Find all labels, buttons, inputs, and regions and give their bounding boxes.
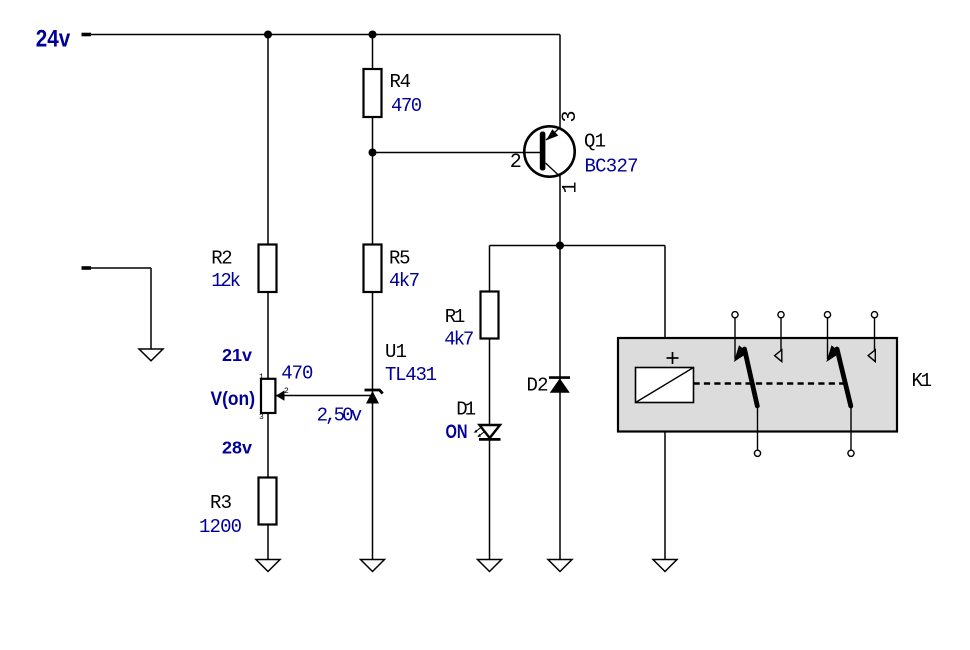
svg-text:2,50v: 2,50v bbox=[317, 405, 363, 427]
svg-text:D2: D2 bbox=[527, 375, 549, 397]
svg-text:1: 1 bbox=[560, 181, 583, 193]
svg-text:1: 1 bbox=[259, 373, 264, 382]
svg-text:12k: 12k bbox=[211, 270, 241, 292]
svg-text:4k7: 4k7 bbox=[389, 270, 420, 292]
svg-text:470: 470 bbox=[391, 95, 422, 117]
svg-text:U1: U1 bbox=[385, 341, 407, 363]
svg-text:K1: K1 bbox=[912, 370, 933, 392]
svg-text:TL431: TL431 bbox=[385, 364, 437, 386]
svg-text:1200: 1200 bbox=[199, 516, 242, 538]
svg-text:28v: 28v bbox=[222, 437, 252, 457]
svg-text:Q1: Q1 bbox=[584, 131, 606, 153]
svg-text:2: 2 bbox=[510, 151, 522, 174]
svg-text:D1: D1 bbox=[456, 398, 476, 420]
svg-text:BC327: BC327 bbox=[585, 156, 639, 178]
svg-text:R5: R5 bbox=[389, 248, 411, 270]
svg-text:V(on): V(on) bbox=[211, 389, 256, 410]
svg-text:21v: 21v bbox=[222, 345, 252, 365]
svg-text:R3: R3 bbox=[210, 492, 232, 514]
svg-text:24v: 24v bbox=[36, 26, 71, 53]
svg-text:R2: R2 bbox=[211, 248, 233, 270]
svg-text:3: 3 bbox=[559, 110, 582, 122]
svg-text:ON: ON bbox=[446, 422, 468, 443]
svg-text:R4: R4 bbox=[390, 71, 412, 93]
svg-text:4k7: 4k7 bbox=[444, 329, 474, 351]
svg-text:3: 3 bbox=[259, 413, 264, 422]
svg-text:R1: R1 bbox=[445, 306, 466, 328]
svg-text:470: 470 bbox=[281, 362, 313, 384]
svg-text:2: 2 bbox=[284, 387, 289, 396]
